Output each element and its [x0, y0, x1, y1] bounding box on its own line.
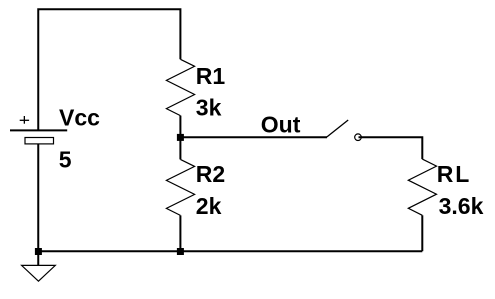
- svg-text:R1: R1: [196, 63, 226, 89]
- resistor RL: [408, 159, 436, 215]
- wire bottom rail: [38, 250, 422, 252]
- junction R2 bottom: [177, 248, 184, 255]
- svg-text:RL: RL: [437, 161, 472, 187]
- wire RL bottom lead: [421, 215, 423, 251]
- svg-text:Out: Out: [261, 111, 301, 137]
- switch S1 lever: [327, 120, 348, 137]
- resistor R2: [166, 159, 194, 215]
- wire battery to bottom rail: [37, 144, 39, 252]
- resistor R1: [166, 59, 194, 115]
- svg-text:R2: R2: [196, 161, 225, 187]
- wire switch to RL: [359, 137, 423, 159]
- svg-text:2k: 2k: [196, 193, 222, 219]
- battery Vcc top plate: [10, 129, 67, 131]
- wire R1 bottom to Out node: [179, 116, 181, 138]
- svg-text:3.6k: 3.6k: [439, 193, 484, 219]
- wire R2 top lead: [179, 137, 181, 159]
- svg-text:3k: 3k: [196, 95, 222, 121]
- battery Vcc bottom plate: [25, 138, 54, 144]
- switch S1 throw terminal: [355, 134, 362, 141]
- svg-text:Vcc: Vcc: [59, 104, 100, 130]
- wire top rail: [38, 9, 180, 130]
- ground symbol: [22, 265, 56, 281]
- ground stem: [37, 251, 39, 265]
- junction at ground node: [35, 248, 42, 255]
- wire Out node to switch: [180, 136, 327, 138]
- battery Vcc plus sign: [20, 116, 29, 124]
- node Out junction: [177, 134, 184, 141]
- wire R2 bottom lead: [179, 215, 181, 251]
- svg-text:5: 5: [59, 147, 72, 173]
